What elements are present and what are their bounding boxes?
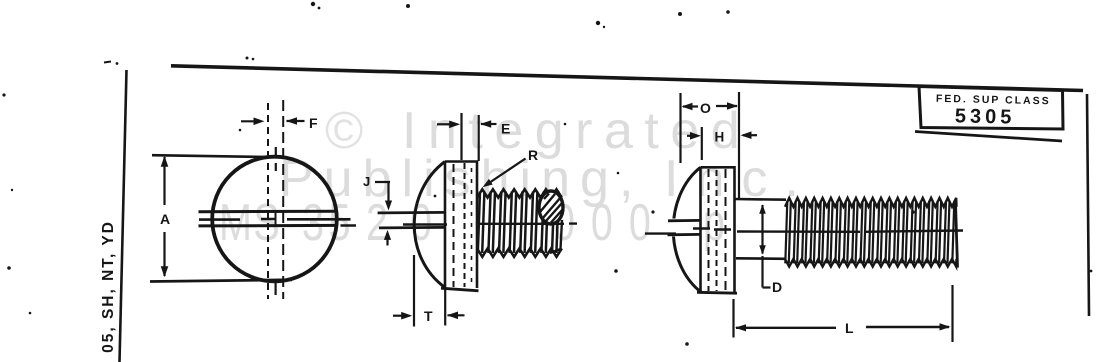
- label H: [715, 130, 725, 145]
- front view horizontal centerline: [199, 218, 351, 221]
- svg-text:35: 35: [302, 193, 355, 252]
- svg-text:R: R: [528, 147, 538, 163]
- middle screw band dashed lines: [453, 164, 455, 287]
- svg-text:000: 000: [553, 193, 667, 252]
- dimension A extension line bottom: [150, 280, 292, 282]
- right screw shank top line: [735, 198, 787, 201]
- label T: [424, 308, 433, 324]
- right border line: [1087, 94, 1089, 316]
- front view vertical centerline: [275, 147, 277, 295]
- right screw shank bottom line: [736, 257, 786, 260]
- right screw slot lower stub: [668, 233, 702, 236]
- right screw slot white gap: [663, 219, 699, 237]
- dimension L extension lines: [734, 285, 953, 342]
- middle screw end chamfer ellipse with hatching: [539, 191, 563, 224]
- front view slot lower line: [199, 224, 338, 228]
- svg-text:H: H: [715, 130, 725, 145]
- middle screw head band outline: [445, 162, 477, 289]
- dimension E extension lines: [462, 113, 479, 161]
- front view center cross vertical dash: [275, 213, 277, 227]
- middle screw slot lower stub: [379, 226, 445, 229]
- dimension F left arrow: [241, 120, 259, 122]
- fed sup class box: [919, 87, 1063, 130]
- right screw end face: [956, 202, 958, 268]
- dimension H extension line: [701, 127, 703, 160]
- middle screw thread flanks: [478, 192, 559, 253]
- right screw head bearing bottom edge: [697, 291, 737, 295]
- box text 5305: [955, 105, 1016, 128]
- right screw band dashed lines: [708, 169, 710, 291]
- dimension T left arrow: [393, 315, 402, 317]
- line below fed sup class box: [915, 132, 1062, 142]
- watermark line 3: [219, 193, 725, 252]
- dimension H left arrow: [687, 135, 692, 137]
- dimension O line right arrow: [716, 105, 737, 107]
- svg-text:5305: 5305: [955, 105, 1016, 128]
- svg-text:L: L: [845, 320, 854, 336]
- svg-text:T: T: [424, 308, 433, 324]
- right screw head band outline: [701, 167, 735, 292]
- box text fed sup class: [936, 93, 1051, 108]
- dimension T right arrow: [448, 314, 465, 316]
- right screw centerline: [645, 229, 963, 234]
- middle screw head crown arc: [414, 162, 445, 288]
- slot width extension line right (dashed): [282, 100, 284, 299]
- dimension O line left arrow: [683, 105, 698, 107]
- middle screw head bearing bottom edge: [441, 288, 479, 291]
- dimension D arrow line: [763, 205, 771, 288]
- svg-text:A: A: [160, 211, 170, 227]
- dimension L line left part: [736, 327, 836, 329]
- label F: [309, 115, 318, 131]
- svg-text:, 05, SH, NT, YD: , 05, SH, NT, YD: [100, 220, 117, 362]
- svg-text:F: F: [309, 115, 318, 131]
- tick marks near top left: [104, 62, 111, 63]
- middle screw threads top edge: [477, 189, 562, 197]
- dimension H right arrow: [743, 134, 757, 136]
- label L: [845, 320, 854, 336]
- svg-text:p: p: [703, 193, 725, 252]
- slot width extension line left (dashed): [267, 103, 269, 299]
- left margin vertical text: [100, 220, 117, 362]
- front view head circle: [212, 157, 337, 282]
- front view slot upper line: [199, 210, 339, 214]
- label E: [501, 121, 510, 137]
- dimension L line right part: [866, 326, 949, 328]
- dimension A extension line top: [152, 155, 283, 157]
- dimension O extension lines: [681, 92, 740, 199]
- dimension J label and bracket: [363, 174, 370, 189]
- dimension A line with arrows: [163, 157, 165, 276]
- right screw threads bottom edge: [785, 259, 957, 267]
- dimension E left arrow: [437, 123, 451, 125]
- middle screw centerline: [341, 224, 578, 226]
- right screw thread flanks: [785, 201, 954, 264]
- svg-text:2: 2: [366, 193, 388, 252]
- svg-text:E: E: [501, 121, 510, 137]
- dimension E right arrow: [481, 123, 497, 125]
- label R with leader: [528, 147, 538, 163]
- svg-text:D: D: [772, 279, 782, 295]
- dimension J lower arrow: [386, 234, 388, 246]
- svg-text:J: J: [363, 174, 370, 189]
- watermark line 2: [279, 150, 816, 208]
- middle screw slot upper stub: [378, 211, 445, 214]
- svg-text:MS: MS: [219, 193, 281, 252]
- dimension F right arrow: [287, 120, 305, 122]
- label D: [772, 279, 782, 295]
- svg-text:O: O: [700, 100, 711, 116]
- middle screw threads bottom edge: [477, 248, 562, 256]
- label A: [160, 211, 170, 227]
- left border line: [120, 70, 127, 362]
- label O: [700, 100, 711, 116]
- middle screw end face line: [550, 220, 562, 253]
- right screw head crown arc: [673, 167, 701, 292]
- dimension T extension lines: [414, 255, 445, 327]
- top border line: [171, 66, 1083, 91]
- watermark line 1: [325, 102, 751, 160]
- right screw slot upper stub: [668, 219, 701, 222]
- right screw threads top edge: [785, 198, 957, 207]
